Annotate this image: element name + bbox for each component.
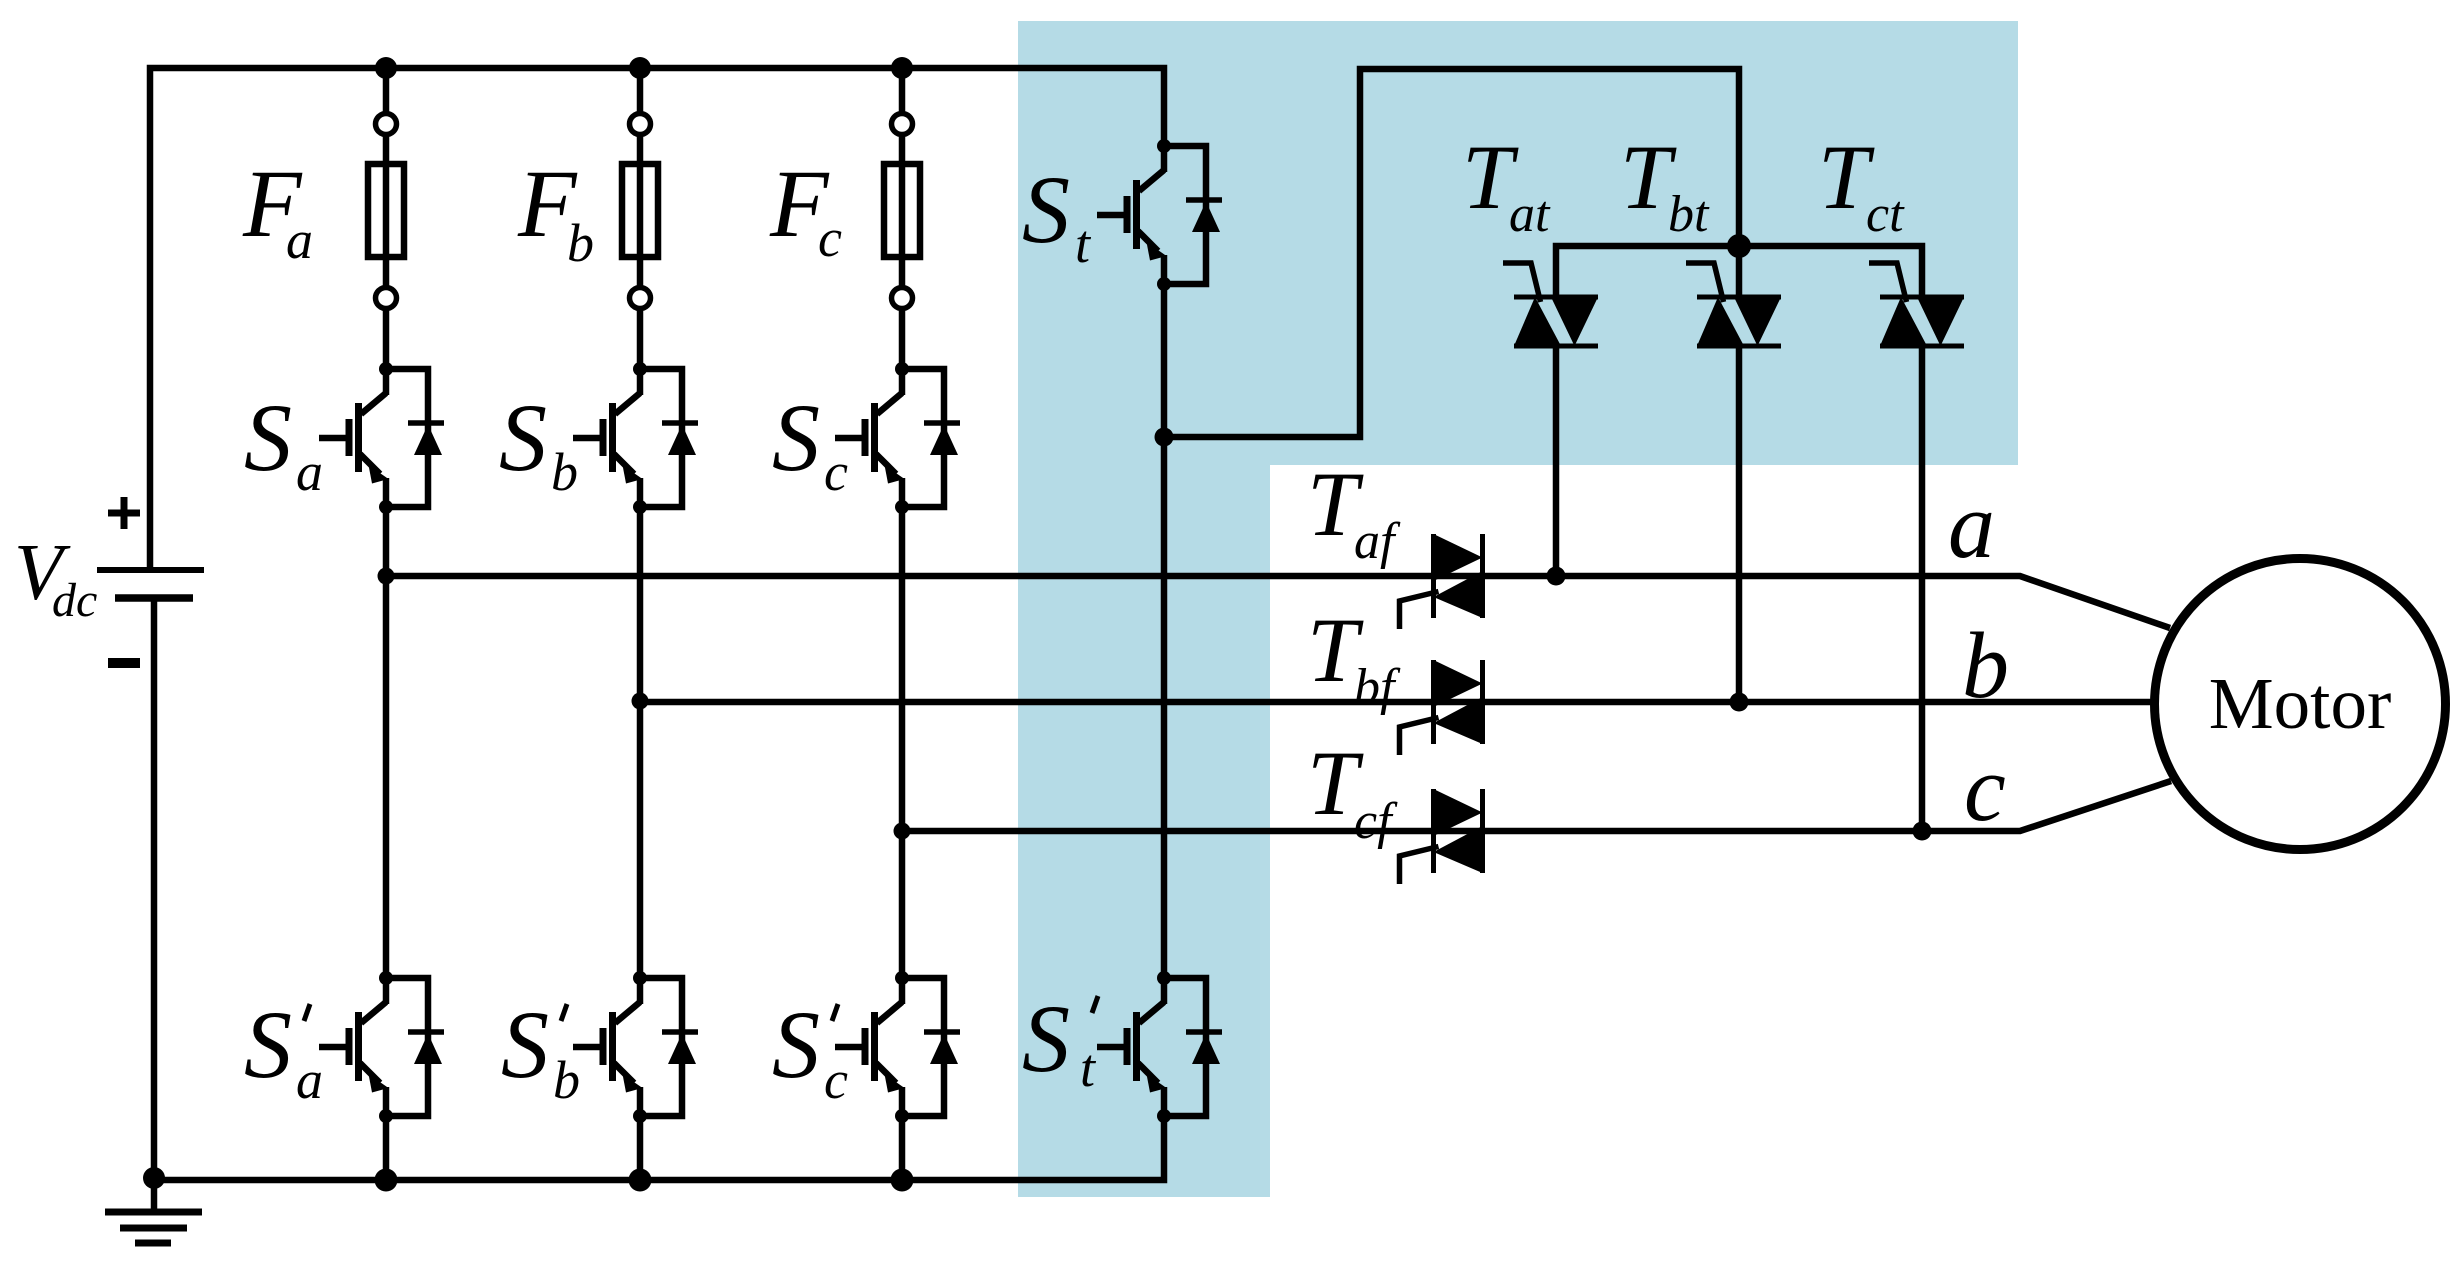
svg-text:b: b — [1962, 614, 2009, 718]
svg-text:c: c — [824, 1050, 848, 1110]
node: DC- at ground — [143, 1167, 165, 1189]
igbt Sc — [835, 362, 960, 514]
svg-text:a: a — [296, 1050, 323, 1110]
wire: leg C middle — [899, 507, 906, 978]
wire: leg A middle — [383, 507, 390, 978]
wire: leg B middle — [637, 507, 644, 978]
wire: phase line b — [640, 699, 2160, 706]
svg-text:a: a — [286, 210, 313, 270]
fuse Fc — [884, 114, 920, 309]
node: DC- at leg C — [891, 1169, 914, 1192]
wire: fourth leg between St and St-prime — [1161, 284, 1168, 978]
svg-text:a: a — [296, 442, 323, 502]
wire: Tbt cathode drop to phase b — [1736, 346, 1743, 702]
igbt Sc-prime — [835, 971, 960, 1123]
svg-text:c: c — [824, 442, 848, 502]
wire: phase line a — [386, 576, 2170, 628]
node: DC+ at leg C — [891, 57, 913, 79]
svg-text:S: S — [1022, 985, 1070, 1092]
node: phase b at leg B — [632, 693, 649, 710]
fuse Fa — [368, 114, 404, 309]
svg-text:b: b — [551, 442, 578, 502]
battery Vdc positive plate — [97, 567, 204, 573]
triac Tat — [1503, 263, 1598, 346]
node: Tct to phase c — [1913, 822, 1932, 841]
wire: phase line c — [902, 781, 2171, 831]
svg-text:bf: bf — [1354, 659, 1401, 716]
svg-text:S: S — [772, 991, 820, 1098]
triac Tbf — [1400, 660, 1483, 755]
svg-text:t: t — [1075, 214, 1092, 274]
wire: leg C lower — [899, 1116, 906, 1180]
svg-text:S: S — [244, 384, 292, 491]
svg-text:S: S — [772, 384, 820, 491]
svg-text:cf: cf — [1354, 793, 1398, 850]
highlight region: spare fourth leg (blue band) — [1018, 21, 1270, 1197]
igbt Sb — [573, 362, 698, 514]
wire: negative DC rail (battery to bottom bus and fourth leg) — [154, 598, 1164, 1180]
wire: St emitter link to thyristor bus — [1164, 69, 1739, 437]
node: DC- at leg B — [629, 1169, 652, 1192]
node: phase a at leg A — [378, 568, 395, 585]
wire: anode bus of Tat/Tbt/Tct — [1556, 246, 1922, 297]
wire: Tbt anode stub — [1736, 246, 1743, 297]
triac Tct — [1869, 263, 1964, 346]
node: phase c at leg C — [894, 823, 911, 840]
ground symbol — [151, 1180, 158, 1212]
svg-text:S: S — [1022, 156, 1070, 263]
igbt Sa — [319, 362, 444, 514]
igbt St-prime (spare leg bottom) — [1097, 971, 1222, 1123]
node: Tbt to phase b — [1730, 693, 1749, 712]
svg-text:c: c — [818, 208, 842, 268]
igbt Sb-prime — [573, 971, 698, 1123]
triac Taf — [1400, 534, 1483, 629]
svg-text:c: c — [1964, 737, 2006, 841]
igbt Sa-prime — [319, 971, 444, 1123]
wire: positive DC rail (left rail + top bus + fourth-leg drop) — [150, 68, 1164, 570]
triac Tcf — [1400, 789, 1483, 884]
node: Tbt anode bus junction — [1727, 234, 1751, 258]
svg-text:b: b — [567, 213, 594, 273]
svg-text:S: S — [244, 991, 292, 1098]
svg-text:a: a — [1948, 474, 1995, 578]
wire: Tct cathode drop to phase c — [1919, 346, 1926, 831]
svg-text:t: t — [1080, 1038, 1097, 1098]
battery Vdc negative plate — [115, 594, 193, 602]
label: battery + sign — [108, 497, 140, 529]
svg-text:ct: ct — [1866, 186, 1905, 243]
svg-text:Motor: Motor — [2209, 663, 2392, 744]
svg-text:S: S — [501, 991, 549, 1098]
svg-text:at: at — [1509, 186, 1551, 243]
fuse Fb — [622, 114, 658, 309]
wire: leg A upper (fuse section) — [383, 68, 390, 369]
label: battery - sign — [108, 658, 140, 668]
igbt St (spare leg top) — [1097, 139, 1222, 291]
node: St emitter junction — [1155, 428, 1174, 447]
svg-text:b: b — [553, 1050, 580, 1110]
wire: leg C upper (fuse section) — [899, 68, 906, 369]
svg-text:S: S — [499, 384, 547, 491]
svg-text:bt: bt — [1668, 186, 1710, 243]
wire: Tat cathode drop to phase a — [1553, 346, 1560, 576]
node: Tat to phase a — [1547, 567, 1566, 586]
svg-text:dc: dc — [52, 574, 97, 627]
node: DC+ at leg B — [629, 57, 651, 79]
motor M — [2155, 559, 2446, 850]
node: DC+ at leg A — [375, 57, 397, 79]
wire: leg B upper (fuse section) — [637, 68, 644, 369]
wire: leg A lower — [383, 1116, 390, 1180]
wire: leg B lower — [637, 1116, 644, 1180]
triac Tbt — [1686, 263, 1781, 346]
svg-text:af: af — [1354, 513, 1401, 570]
node: DC- at leg A — [375, 1169, 398, 1192]
highlight region: connection thyristors (blue box) — [1018, 21, 2018, 465]
